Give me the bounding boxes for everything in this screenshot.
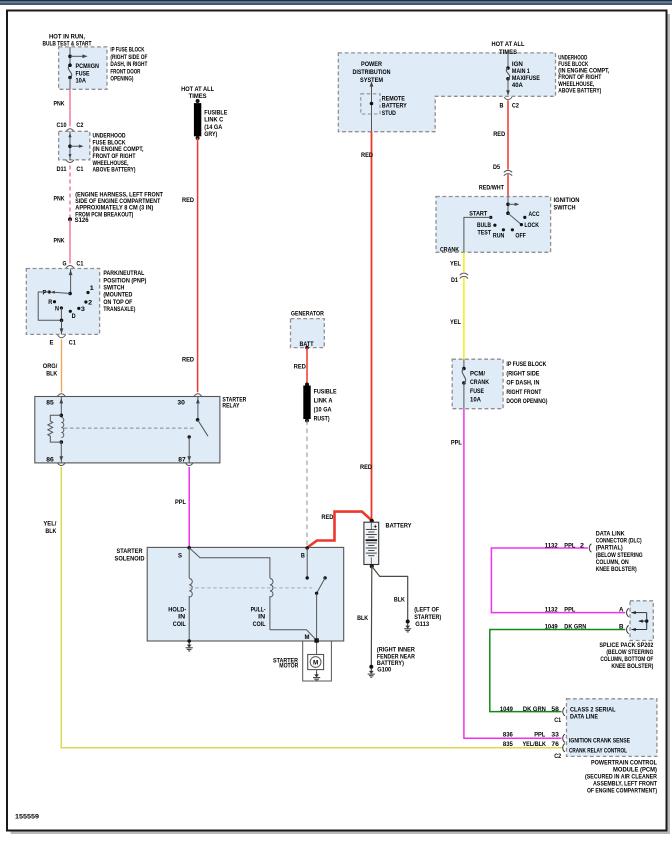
- svg-text:GENERATOR: GENERATOR: [291, 311, 324, 318]
- svg-text:YEL: YEL: [450, 319, 461, 326]
- svg-text:G: G: [63, 260, 67, 267]
- svg-text:DK GRN: DK GRN: [564, 623, 586, 630]
- svg-text:(BELOW STEERING: (BELOW STEERING: [596, 552, 643, 559]
- svg-text:DASH, IN RIGHT: DASH, IN RIGHT: [110, 61, 147, 68]
- svg-text:COIL: COIL: [173, 621, 186, 628]
- svg-text:(SECURED IN AIR CLEANER: (SECURED IN AIR CLEANER: [585, 774, 657, 781]
- svg-text:ON TOP OF: ON TOP OF: [103, 299, 132, 306]
- svg-text:BATTERY: BATTERY: [386, 523, 413, 530]
- svg-text:C1: C1: [76, 260, 83, 267]
- svg-text:D: D: [72, 313, 76, 320]
- svg-text:3: 3: [81, 306, 86, 313]
- svg-text:RUST): RUST): [314, 415, 330, 422]
- svg-text:76: 76: [551, 741, 559, 748]
- svg-text:FUSIBLE: FUSIBLE: [204, 109, 227, 116]
- svg-text:HOT AT ALL: HOT AT ALL: [492, 41, 525, 48]
- svg-text:CRANK RELAY CONTROL: CRANK RELAY CONTROL: [569, 748, 627, 755]
- svg-text:FUSIBLE: FUSIBLE: [314, 388, 337, 395]
- svg-text:LOCK: LOCK: [524, 222, 539, 229]
- svg-text:1132: 1132: [545, 542, 558, 549]
- svg-text:YEL/: YEL/: [43, 521, 56, 528]
- svg-text:FUSE: FUSE: [76, 70, 90, 77]
- svg-text:D5: D5: [493, 164, 500, 171]
- svg-text:PCM/IGN: PCM/IGN: [76, 63, 100, 70]
- svg-text:C1: C1: [76, 166, 83, 173]
- svg-text:87: 87: [178, 456, 186, 463]
- svg-text:OPENING): OPENING): [110, 76, 133, 83]
- svg-text:58: 58: [551, 706, 559, 713]
- svg-text:A: A: [619, 606, 624, 613]
- svg-text:2: 2: [580, 542, 585, 549]
- svg-text:(RIGHT SIDE OF: (RIGHT SIDE OF: [110, 54, 147, 61]
- svg-text:CLASS 2 SERIAL: CLASS 2 SERIAL: [570, 707, 616, 714]
- svg-text:BULB: BULB: [477, 222, 491, 229]
- svg-text:DISTRIBUTION: DISTRIBUTION: [353, 69, 391, 76]
- svg-text:STARTER): STARTER): [414, 614, 441, 621]
- svg-text:STARTER: STARTER: [117, 548, 143, 555]
- svg-text:G100: G100: [377, 667, 391, 674]
- svg-text:STUD: STUD: [382, 110, 396, 117]
- svg-text:FUSE: FUSE: [470, 388, 484, 395]
- svg-text:COLUMN, BOTTOM OF: COLUMN, BOTTOM OF: [600, 656, 653, 663]
- svg-text:PULL-: PULL-: [251, 606, 266, 613]
- svg-text:ABOVE BATTERY): ABOVE BATTERY): [558, 87, 601, 94]
- svg-text:CRANK: CRANK: [440, 247, 459, 254]
- svg-text:836: 836: [503, 731, 513, 738]
- svg-text:BATTERY: BATTERY: [382, 103, 408, 110]
- svg-text:B: B: [619, 623, 624, 630]
- svg-text:(PARTIAL): (PARTIAL): [596, 545, 623, 552]
- svg-text:PNK: PNK: [54, 238, 65, 245]
- svg-text:IGN: IGN: [512, 61, 523, 68]
- svg-text:IGNITION CRANK SENSE: IGNITION CRANK SENSE: [569, 738, 630, 745]
- svg-text:RED: RED: [493, 131, 505, 138]
- svg-text:E: E: [50, 340, 54, 347]
- svg-text:TIMES: TIMES: [189, 93, 207, 100]
- svg-text:RED: RED: [361, 152, 373, 159]
- svg-text:30: 30: [177, 399, 185, 406]
- svg-text:MODULE (PCM): MODULE (PCM): [613, 767, 657, 774]
- svg-text:SWITCH: SWITCH: [554, 204, 576, 211]
- svg-text:S126: S126: [75, 217, 89, 224]
- svg-text:(MOUNTED: (MOUNTED: [103, 292, 132, 299]
- svg-text:RED: RED: [321, 514, 333, 521]
- svg-text:DATA LINK: DATA LINK: [596, 531, 625, 538]
- svg-text:HOLD-: HOLD-: [168, 606, 186, 613]
- svg-text:OFF: OFF: [515, 232, 526, 239]
- svg-text:PPL: PPL: [564, 606, 575, 613]
- svg-text:BLK: BLK: [45, 528, 56, 535]
- svg-text:D11: D11: [57, 166, 67, 173]
- svg-text:BLK: BLK: [394, 597, 405, 604]
- svg-text:B: B: [500, 103, 504, 110]
- svg-text:835: 835: [503, 741, 513, 748]
- svg-text:RED: RED: [182, 357, 194, 364]
- svg-text:COIL: COIL: [253, 621, 266, 628]
- svg-text:YEL/BLK: YEL/BLK: [523, 741, 547, 748]
- svg-text:M: M: [313, 659, 318, 666]
- svg-text:GRY): GRY): [204, 131, 217, 138]
- svg-text:DK GRN: DK GRN: [523, 706, 546, 713]
- svg-text:KNEE BOLSTER): KNEE BOLSTER): [596, 566, 637, 573]
- svg-text:REMOTE: REMOTE: [382, 95, 405, 102]
- svg-text:DATA LINE: DATA LINE: [570, 714, 598, 721]
- svg-text:10A: 10A: [470, 396, 481, 403]
- svg-text:KNEE BOLSTER): KNEE BOLSTER): [611, 663, 653, 670]
- svg-text:IGNITION: IGNITION: [554, 197, 580, 204]
- svg-text:HOT IN RUN,: HOT IN RUN,: [49, 33, 85, 40]
- svg-text:SWITCH: SWITCH: [103, 285, 124, 292]
- svg-text:P: P: [43, 289, 47, 296]
- svg-text:OF ENGINE COMPARTMENT): OF ENGINE COMPARTMENT): [587, 788, 657, 795]
- svg-text:(LEFT OF: (LEFT OF: [414, 607, 439, 614]
- svg-text:HOT AT ALL: HOT AT ALL: [181, 86, 214, 93]
- svg-text:PNK: PNK: [54, 196, 65, 203]
- svg-text:FRONT DOOR: FRONT DOOR: [110, 68, 140, 75]
- svg-text:ABOVE BATTERY): ABOVE BATTERY): [93, 167, 136, 174]
- svg-text:SOLENOID: SOLENOID: [115, 556, 145, 563]
- svg-text:155559: 155559: [15, 814, 40, 821]
- svg-text:C1: C1: [69, 340, 76, 347]
- svg-text:PPL: PPL: [175, 499, 186, 506]
- svg-text:LINK A: LINK A: [314, 397, 333, 404]
- svg-text:POSITION (PNP): POSITION (PNP): [103, 277, 146, 284]
- svg-text:C2: C2: [512, 103, 519, 110]
- svg-text:IP FUSE BLOCK: IP FUSE BLOCK: [506, 361, 546, 368]
- svg-text:RED: RED: [294, 363, 306, 370]
- svg-text:PPL: PPL: [534, 731, 545, 738]
- svg-text:POWERTRAIN CONTROL: POWERTRAIN CONTROL: [591, 760, 657, 767]
- svg-text:1: 1: [90, 285, 95, 292]
- svg-text:1132: 1132: [545, 606, 558, 613]
- svg-text:ASSEMBLY, LEFT FRONT: ASSEMBLY, LEFT FRONT: [593, 781, 657, 788]
- svg-text:CONNECTOR (DLC): CONNECTOR (DLC): [596, 538, 642, 545]
- svg-text:RIGHT FRONT: RIGHT FRONT: [506, 389, 541, 396]
- svg-text:D1: D1: [451, 277, 458, 284]
- svg-text:M: M: [305, 634, 310, 641]
- svg-text:MOTOR: MOTOR: [279, 663, 298, 670]
- svg-text:START: START: [469, 211, 487, 218]
- svg-text:MAXIFUSE: MAXIFUSE: [512, 75, 540, 82]
- svg-text:C2: C2: [76, 122, 83, 129]
- svg-text:MAIN 1: MAIN 1: [512, 68, 530, 75]
- svg-text:IN: IN: [178, 614, 185, 621]
- svg-text:B: B: [301, 552, 305, 559]
- svg-text:ACC: ACC: [529, 211, 540, 218]
- svg-text:ORG/: ORG/: [43, 363, 58, 370]
- svg-text:1049: 1049: [500, 706, 513, 713]
- svg-text:RED/WHT: RED/WHT: [479, 184, 504, 191]
- svg-text:TRANSAXLE): TRANSAXLE): [103, 306, 135, 313]
- svg-text:PPL: PPL: [564, 542, 575, 549]
- svg-text:RED: RED: [182, 197, 194, 204]
- svg-text:1049: 1049: [545, 623, 558, 630]
- svg-text:POWER: POWER: [361, 61, 382, 68]
- svg-text:C1: C1: [554, 717, 561, 724]
- svg-text:PNK: PNK: [54, 101, 65, 108]
- svg-text:OF DASH, IN: OF DASH, IN: [506, 380, 539, 387]
- svg-text:86: 86: [46, 456, 54, 463]
- svg-text:IP FUSE BLOCK: IP FUSE BLOCK: [110, 47, 144, 54]
- svg-text:LINK C: LINK C: [204, 117, 223, 124]
- svg-text:(10 GA: (10 GA: [314, 406, 332, 413]
- svg-text:CRANK: CRANK: [470, 379, 489, 386]
- svg-text:C10: C10: [57, 122, 67, 129]
- svg-text:(RIGHT SIDE: (RIGHT SIDE: [506, 370, 539, 377]
- svg-text:PPL: PPL: [451, 440, 462, 447]
- svg-text:IN: IN: [258, 614, 265, 621]
- svg-text:PARK/NEUTRAL: PARK/NEUTRAL: [103, 270, 144, 277]
- svg-text:RELAY: RELAY: [222, 402, 240, 409]
- svg-text:10A: 10A: [76, 77, 87, 84]
- svg-text:BLK: BLK: [46, 371, 57, 378]
- svg-text:N: N: [55, 306, 59, 313]
- svg-text:RED: RED: [360, 464, 372, 471]
- svg-text:40A: 40A: [512, 82, 523, 89]
- svg-text:BLK: BLK: [357, 615, 368, 622]
- svg-text:SPLICE PACK SP202: SPLICE PACK SP202: [599, 642, 653, 649]
- svg-text:TEST: TEST: [478, 229, 492, 236]
- svg-text:RUN: RUN: [493, 232, 505, 239]
- svg-text:G113: G113: [415, 621, 429, 628]
- svg-text:R: R: [48, 299, 52, 306]
- svg-text:2: 2: [88, 300, 93, 307]
- svg-text:85: 85: [46, 399, 54, 406]
- svg-text:C2: C2: [554, 753, 561, 760]
- svg-text:YEL: YEL: [450, 261, 461, 268]
- svg-text:(14 GA: (14 GA: [204, 124, 222, 131]
- svg-text:DOOR OPENING): DOOR OPENING): [506, 398, 547, 405]
- svg-text:COLUMN, ON: COLUMN, ON: [596, 559, 629, 566]
- svg-text:S: S: [178, 552, 182, 559]
- svg-text:PCM/: PCM/: [470, 371, 485, 378]
- svg-text:33: 33: [551, 731, 559, 738]
- svg-text:(BELOW STEERING: (BELOW STEERING: [606, 649, 653, 656]
